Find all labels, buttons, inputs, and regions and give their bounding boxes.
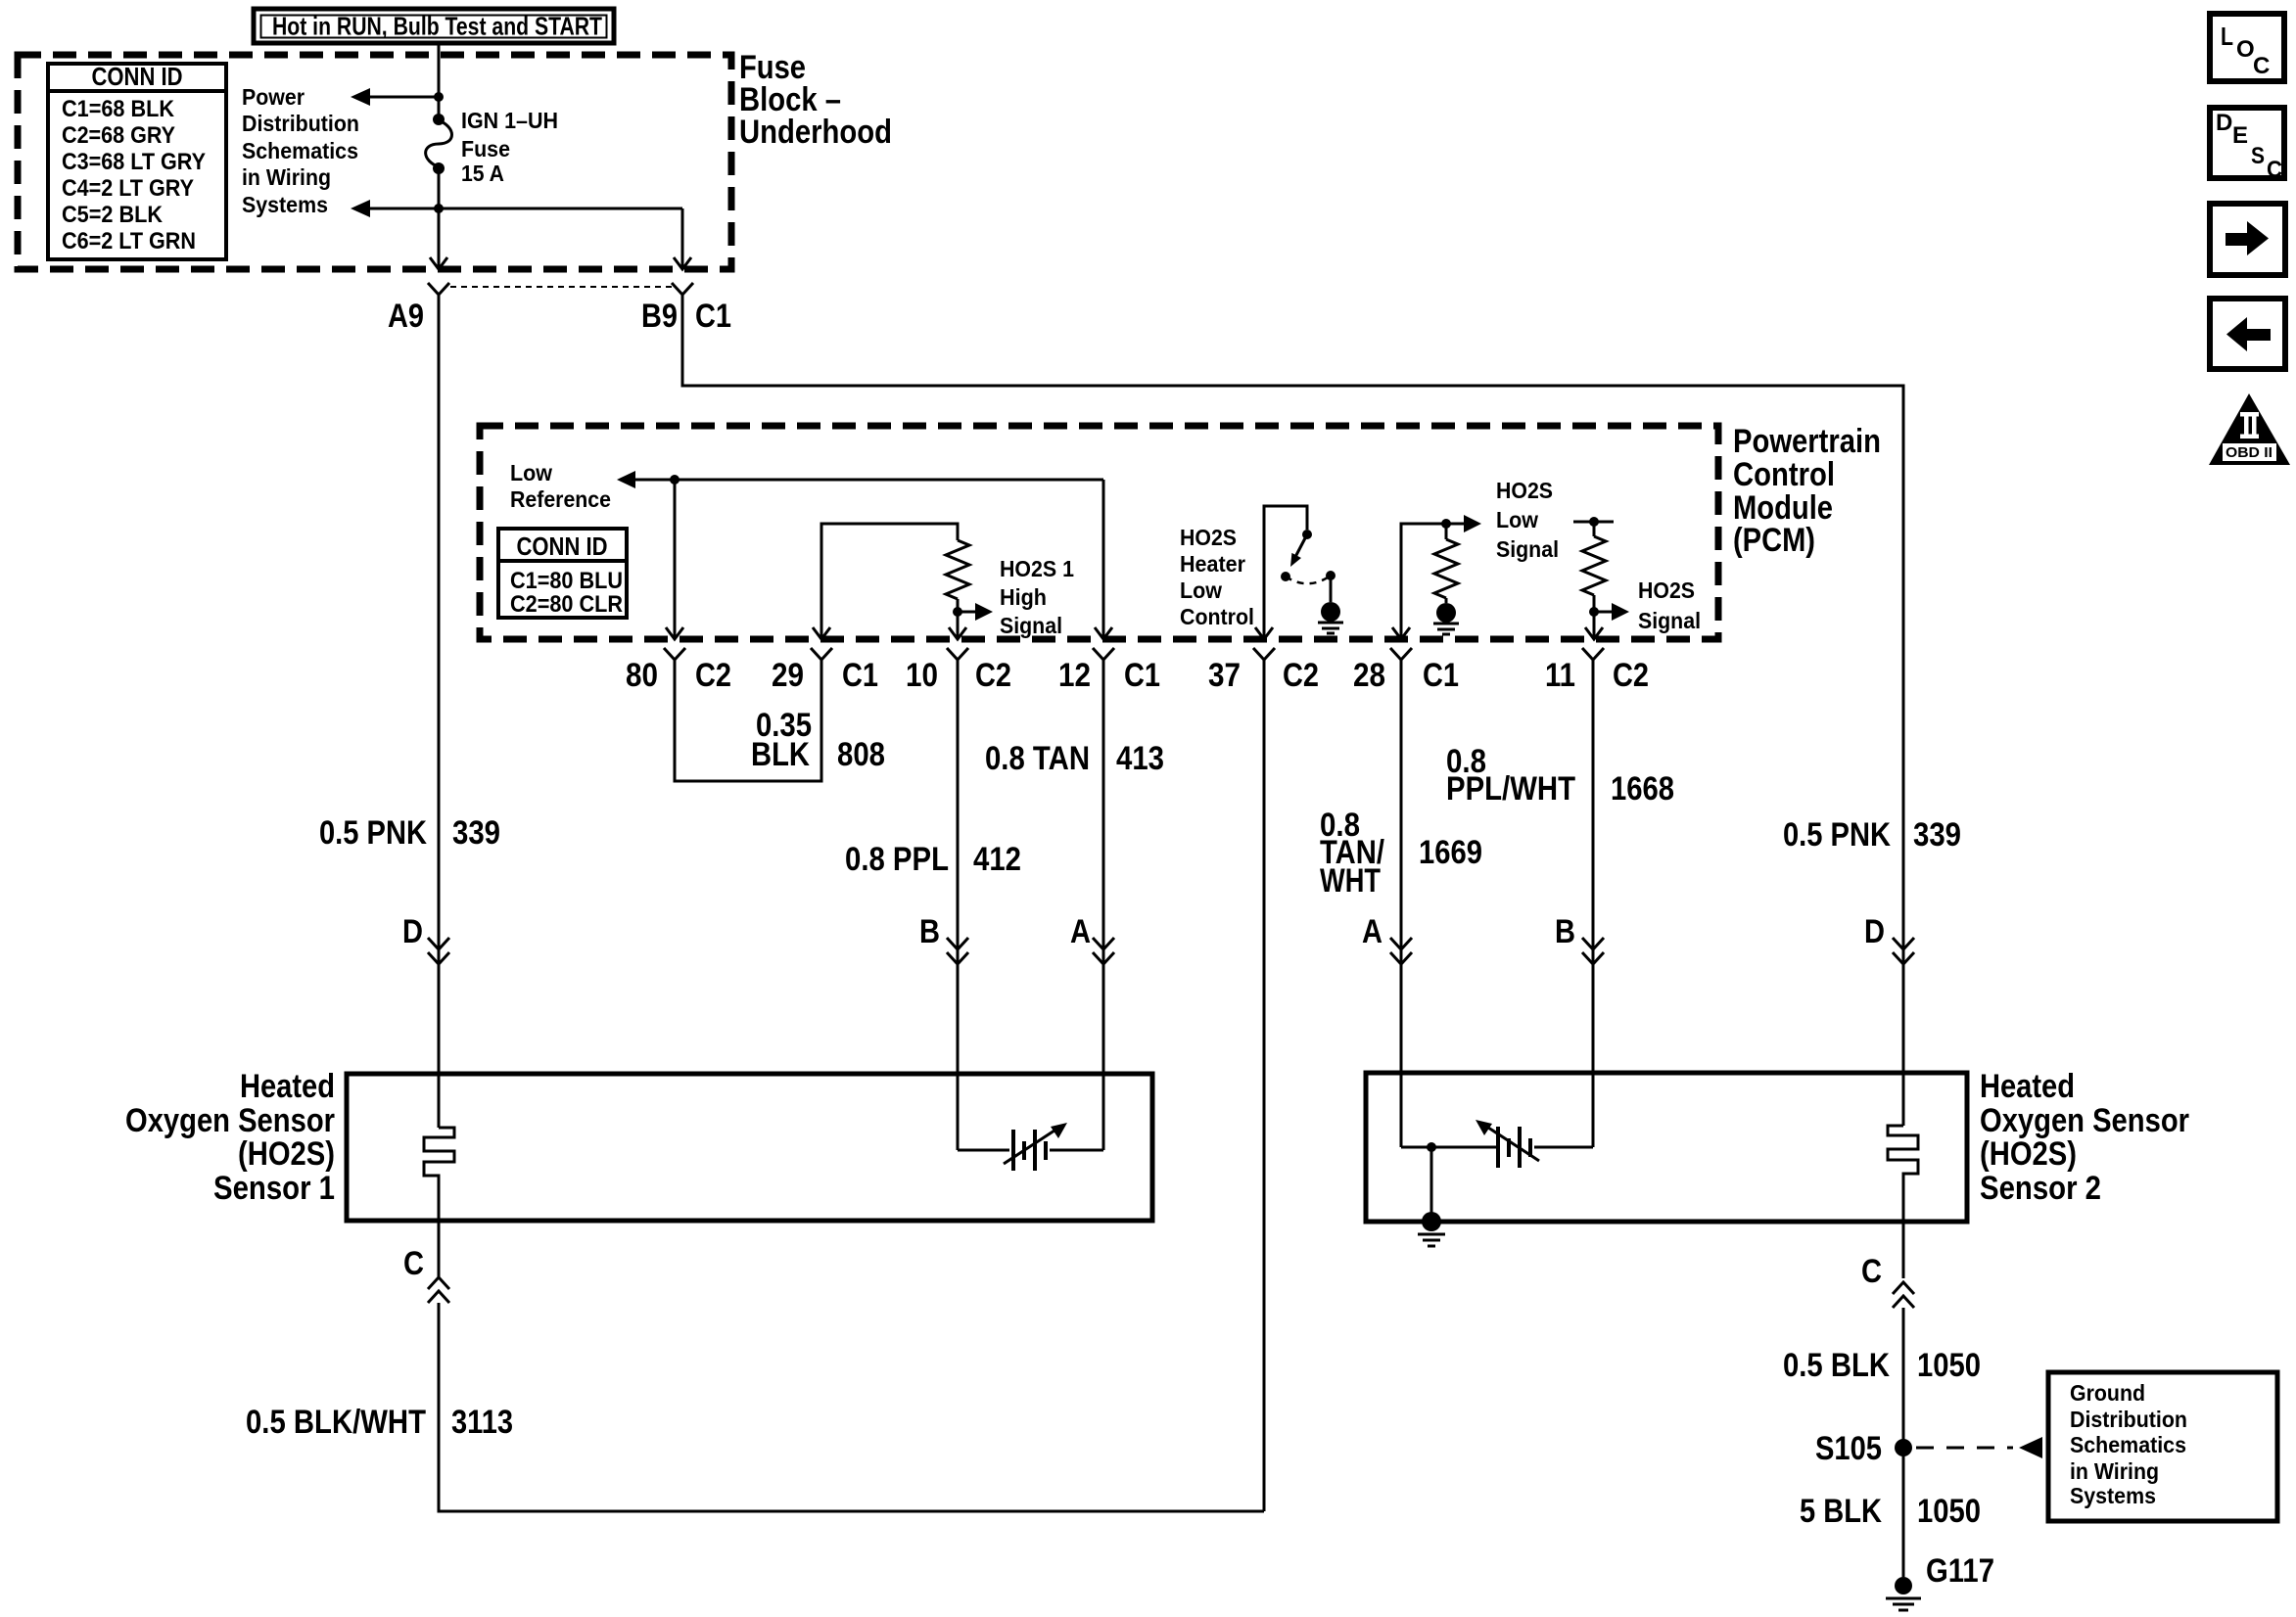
svg-text:O: O [2236,36,2255,63]
svg-text:1050: 1050 [1917,1347,1981,1384]
svg-text:0.5 BLK: 0.5 BLK [1783,1347,1890,1384]
svg-text:High: High [1000,584,1047,610]
svg-text:Fuse: Fuse [461,136,510,162]
svg-text:B: B [919,913,940,950]
svg-text:C5=2 BLK: C5=2 BLK [62,202,164,228]
svg-text:(PCM): (PCM) [1733,522,1815,559]
svg-text:412: 412 [973,841,1021,878]
svg-text:(HO2S): (HO2S) [238,1135,335,1173]
svg-text:Control: Control [1733,456,1835,493]
svg-text:3113: 3113 [451,1404,513,1441]
svg-text:CONN ID: CONN ID [517,531,608,561]
svg-text:Sensor 1: Sensor 1 [213,1170,335,1207]
svg-text:E: E [2232,122,2248,149]
svg-text:Control: Control [1180,604,1254,629]
svg-text:29: 29 [772,657,804,694]
svg-text:Ground: Ground [2070,1380,2145,1406]
svg-text:G117: G117 [1926,1552,1994,1590]
svg-text:Signal: Signal [1638,608,1701,633]
svg-text:Power: Power [242,84,305,110]
svg-text:B: B [1555,913,1575,950]
svg-text:339: 339 [452,814,500,852]
svg-text:Systems: Systems [2070,1483,2156,1508]
svg-text:IGN 1–UH: IGN 1–UH [461,108,558,133]
svg-text:C6=2 LT GRN: C6=2 LT GRN [62,228,196,254]
svg-text:(HO2S): (HO2S) [1980,1135,2077,1173]
svg-text:C: C [2267,157,2282,183]
svg-text:C2: C2 [695,657,731,694]
svg-text:5 BLK: 5 BLK [1800,1493,1882,1530]
svg-text:Distribution: Distribution [242,111,359,136]
svg-text:Heated: Heated [1980,1068,2075,1105]
svg-text:L: L [2221,22,2233,51]
svg-text:0.5 PNK: 0.5 PNK [1783,816,1891,854]
svg-text:Hot in RUN, Bulb Test and STAR: Hot in RUN, Bulb Test and START [272,12,602,41]
svg-text:0.8 PPL: 0.8 PPL [845,841,949,878]
svg-text:C1: C1 [1124,657,1160,694]
svg-text:C: C [2253,53,2270,79]
svg-text:C2=68 GRY: C2=68 GRY [62,122,175,149]
svg-text:Reference: Reference [510,486,611,512]
svg-text:Underhood: Underhood [739,114,892,151]
svg-text:C2: C2 [1613,657,1649,694]
svg-text:S105: S105 [1815,1430,1882,1467]
svg-text:Powertrain: Powertrain [1733,423,1881,460]
svg-text:Oxygen Sensor: Oxygen Sensor [125,1102,335,1139]
svg-text:80: 80 [626,657,658,694]
svg-text:0.5 BLK/WHT: 0.5 BLK/WHT [246,1404,426,1441]
svg-text:Heater: Heater [1180,551,1245,577]
svg-text:BLK: BLK [751,736,810,773]
svg-text:A: A [1362,913,1382,950]
svg-text:Low: Low [1496,507,1538,532]
svg-text:Signal: Signal [1496,536,1559,562]
svg-text:PPL/WHT: PPL/WHT [1446,770,1575,808]
svg-text:C1=80 BLU: C1=80 BLU [510,568,623,594]
svg-text:C: C [403,1245,424,1282]
svg-text:Systems: Systems [242,192,328,217]
svg-text:CONN ID: CONN ID [92,62,183,91]
svg-text:C2: C2 [1283,657,1319,694]
svg-text:1050: 1050 [1917,1493,1981,1530]
svg-text:HO2S: HO2S [1496,478,1553,503]
svg-text:Low: Low [1180,577,1222,603]
svg-text:HO2S: HO2S [1180,525,1237,550]
svg-text:in Wiring: in Wiring [2070,1458,2159,1484]
svg-text:10: 10 [906,657,938,694]
svg-text:0.5 PNK: 0.5 PNK [319,814,427,852]
svg-text:37: 37 [1208,657,1241,694]
svg-text:WHT: WHT [1320,862,1381,900]
svg-text:D: D [402,913,423,950]
svg-text:Distribution: Distribution [2070,1407,2187,1432]
svg-text:C4=2 LT GRY: C4=2 LT GRY [62,175,194,202]
svg-text:in Wiring: in Wiring [242,164,331,190]
svg-text:15 A: 15 A [461,161,504,186]
svg-text:C: C [1861,1253,1882,1290]
svg-text:Heated: Heated [240,1068,335,1105]
svg-text:A9: A9 [388,298,424,335]
svg-text:28: 28 [1353,657,1385,694]
svg-text:C2=80 CLR: C2=80 CLR [510,591,623,618]
svg-text:808: 808 [837,736,885,773]
svg-text:0.8 TAN: 0.8 TAN [985,740,1090,777]
svg-text:339: 339 [1913,816,1961,854]
svg-text:Signal: Signal [1000,613,1062,638]
svg-text:HO2S 1: HO2S 1 [1000,556,1074,581]
svg-text:413: 413 [1116,740,1164,777]
svg-text:C1: C1 [842,657,878,694]
svg-text:Oxygen Sensor: Oxygen Sensor [1980,1102,2189,1139]
svg-text:D: D [2216,110,2232,136]
svg-text:C1: C1 [1423,657,1459,694]
svg-text:Schematics: Schematics [242,138,358,163]
svg-text:11: 11 [1545,657,1575,694]
svg-text:OBD II: OBD II [2226,444,2273,461]
svg-text:12: 12 [1058,657,1091,694]
svg-text:Schematics: Schematics [2070,1432,2186,1457]
svg-text:A: A [1070,913,1091,950]
svg-text:HO2S: HO2S [1638,577,1695,603]
svg-text:Sensor 2: Sensor 2 [1980,1170,2101,1207]
svg-text:1668: 1668 [1611,770,1674,808]
svg-text:Low: Low [510,460,552,485]
svg-text:C3=68 LT GRY: C3=68 LT GRY [62,149,206,175]
svg-text:C1=68 BLK: C1=68 BLK [62,96,175,122]
svg-text:C1: C1 [695,298,731,335]
svg-text:S: S [2251,143,2265,169]
svg-text:C2: C2 [975,657,1011,694]
svg-text:B9: B9 [641,298,678,335]
svg-text:D: D [1864,913,1885,950]
svg-text:1669: 1669 [1419,834,1482,871]
